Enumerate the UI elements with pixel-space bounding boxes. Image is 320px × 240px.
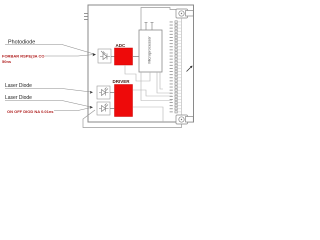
laser diode D3 box	[97, 102, 110, 115]
svg-text:50ns: 50ns	[2, 59, 12, 64]
wire micro bottom to connector pins b	[157, 72, 172, 93]
wire driver right to connector b	[133, 107, 163, 122]
connector J1 pin rows	[170, 21, 182, 113]
wire ADC to microprocessor	[133, 56, 139, 58]
leader from Photodiode label	[5, 45, 94, 55]
arrowhead laser diode 2	[90, 106, 93, 109]
laser diode D2 symbol	[99, 88, 109, 96]
wire ADC up to top bus	[141, 8, 176, 31]
wire ADC bottom to micro bottom loop	[125, 65, 150, 81]
leader laser diode 1	[5, 89, 91, 93]
photodiode D1 box	[98, 49, 111, 63]
wire driver right to connector a	[133, 90, 172, 96]
svg-text:Laser Diode: Laser Diode	[5, 95, 32, 101]
svg-text:ON OFF DIOD NA 0.01ns: ON OFF DIOD NA 0.01ns	[7, 109, 54, 114]
arrowhead at photodiode	[93, 53, 97, 56]
svg-text:FORBAR RSPE(3A CO: FORBAR RSPE(3A CO	[2, 54, 45, 59]
laser diode D3 symbol	[99, 104, 109, 112]
wire micro bottom to connector pins a	[141, 72, 172, 101]
wire laser diode D2 to driver	[110, 92, 115, 94]
photodiode D1 symbol	[100, 51, 110, 60]
leader laser diode 2	[5, 101, 91, 108]
annotation arrow on right edge	[187, 66, 193, 72]
arrowhead laser diode 1	[90, 91, 93, 94]
laser diode D2 box	[97, 86, 110, 99]
microprocessor top stub 2	[151, 23, 154, 31]
board left edge pin stubs	[84, 14, 88, 20]
connector J1 top mounting hole	[176, 9, 193, 18]
svg-text:DRIVER: DRIVER	[113, 79, 131, 84]
wire photodiode to ADC	[111, 56, 115, 58]
svg-text:Laser Diode: Laser Diode	[5, 83, 32, 89]
wire micro right to connector	[160, 72, 163, 89]
microprocessor U1 box	[139, 30, 162, 72]
DRIVER block U3	[115, 85, 133, 117]
connector J1 body line	[181, 18, 183, 115]
leader from red annotation	[45, 55, 94, 57]
connector J1 bottom mounting hole	[176, 115, 193, 124]
svg-text:ADC: ADC	[116, 43, 126, 48]
ADC block U2	[115, 48, 133, 65]
leader from ON OFF annotation	[54, 108, 91, 111]
wire laser diode D3 to driver	[110, 108, 115, 110]
svg-text:Microprocessor: Microprocessor	[147, 36, 152, 64]
return wire around bottom	[83, 110, 182, 128]
board outline	[88, 5, 194, 122]
microprocessor top stub 1	[145, 23, 148, 31]
